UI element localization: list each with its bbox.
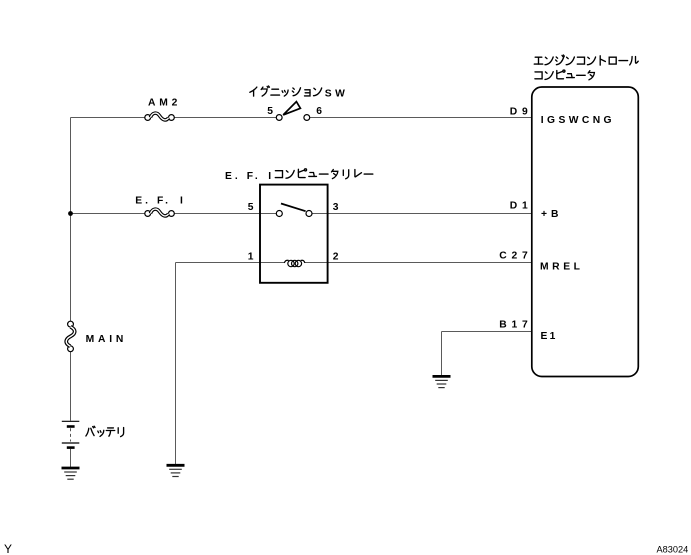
ground relay coil (167, 465, 185, 476)
svg-text:MREL: MREL (540, 261, 584, 272)
wire (174, 213, 276, 215)
svg-text:1: 1 (248, 252, 254, 263)
svg-text:5: 5 (248, 202, 254, 213)
wire (305, 262, 532, 264)
label battery (86, 426, 124, 436)
svg-text:I: I (180, 196, 183, 207)
fuse EFI (145, 209, 175, 216)
svg-text:5: 5 (267, 106, 273, 117)
svg-text:E.: E. (135, 196, 151, 207)
svg-text:F.: F. (247, 171, 261, 182)
wire (70, 352, 72, 421)
fuse AM2 (145, 113, 175, 120)
wire (442, 331, 532, 333)
svg-text:I: I (268, 171, 271, 182)
svg-text:B17: B17 (499, 319, 532, 330)
svg-text:Y: Y (4, 542, 12, 555)
svg-text:E1: E1 (541, 331, 558, 342)
relay coil 1-2 (284, 260, 305, 266)
label E.F.I fuse (135, 196, 183, 207)
label EFI computer relay (225, 169, 373, 182)
wire (312, 213, 532, 215)
relay switch contacts 5-3 (276, 204, 312, 217)
svg-text:IGSWCNG: IGSWCNG (541, 115, 615, 126)
svg-text:SW: SW (325, 88, 348, 99)
label engine control computer line1 (534, 55, 638, 65)
ECU U1 engine control computer box (532, 87, 639, 377)
svg-text:AM2: AM2 (148, 98, 181, 109)
label computer line2 (535, 70, 594, 80)
svg-text:F.: F. (157, 196, 171, 207)
wire (441, 332, 443, 376)
wire (71, 117, 145, 119)
ground battery (62, 468, 80, 479)
svg-text:D1: D1 (510, 200, 533, 211)
switch SW1 ignition contacts 5-6 (276, 102, 309, 121)
svg-text:A83024: A83024 (657, 544, 689, 554)
svg-text:E.: E. (225, 171, 241, 182)
wire (174, 117, 276, 119)
svg-text:+B: +B (541, 209, 562, 220)
wire (70, 449, 72, 467)
node A junction (68, 211, 73, 216)
fusible link MAIN (66, 321, 74, 351)
svg-text:C27: C27 (499, 251, 532, 262)
svg-text:2: 2 (333, 252, 339, 263)
wire (71, 213, 145, 215)
svg-text:D9: D9 (510, 106, 533, 117)
wire (175, 263, 177, 465)
battery BAT (62, 421, 80, 447)
wire (176, 262, 285, 264)
svg-text:MAIN: MAIN (86, 334, 128, 345)
svg-text:3: 3 (333, 202, 339, 213)
svg-text:6: 6 (316, 106, 322, 117)
ground E1 (433, 376, 451, 387)
relay K1 EFI computer relay box (260, 185, 328, 283)
label ignition SW (250, 86, 348, 99)
wire (70, 118, 72, 322)
wire (310, 117, 532, 119)
